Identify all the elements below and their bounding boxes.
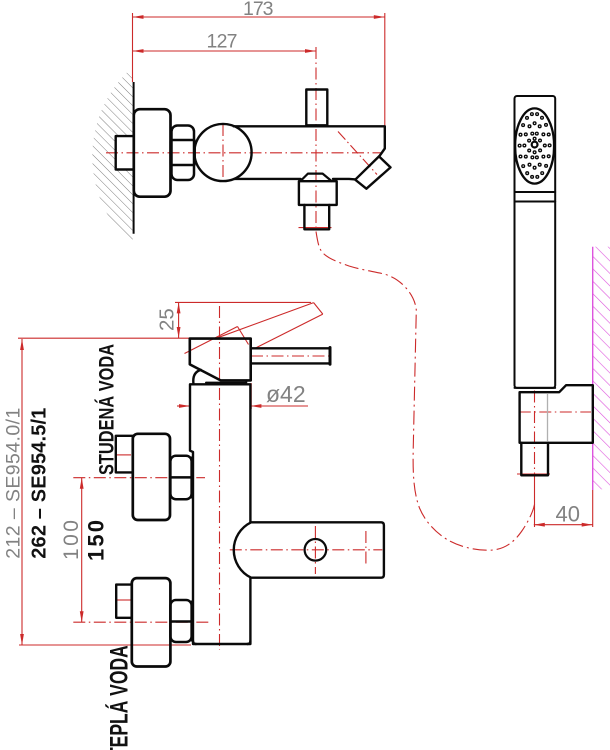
upper wall pipe small rect bbox=[116, 436, 133, 473]
lower wall pipe centerline short bbox=[117, 599, 131, 601]
wall extension red for 40 dim bbox=[592, 490, 594, 527]
phantom lever R1 rotated head top bbox=[185, 327, 238, 354]
body top view outline bbox=[234, 126, 385, 179]
svg-text:STUDENÁ VODA: STUDENÁ VODA bbox=[95, 344, 118, 475]
dimension ø42 arrows shafts bbox=[177, 405, 190, 407]
shower attach crosshair bbox=[365, 531, 367, 564]
dimension 25 line bbox=[178, 302, 180, 338]
ball joint circle bbox=[194, 124, 251, 181]
top pipe stub bbox=[306, 90, 327, 126]
lower inlet centerline bbox=[73, 621, 211, 623]
spout arc bbox=[193, 370, 201, 384]
hose curve bbox=[316, 232, 535, 551]
dark gap band lower nut/tube bbox=[191, 601, 194, 642]
upper flange bbox=[133, 434, 170, 520]
extension line left (wall) bbox=[132, 13, 134, 82]
svg-text:127: 127 bbox=[207, 31, 238, 53]
svg-text:40: 40 bbox=[556, 502, 580, 527]
wall pipe small rect top view bbox=[116, 136, 134, 169]
nozzle axis 45deg bbox=[338, 132, 377, 175]
dimension 40 line bbox=[534, 524, 593, 526]
wall hatch top-left (top view wall) bbox=[92, 70, 133, 246]
wall edge line right magenta bbox=[592, 247, 594, 490]
front tube vertical centerline bbox=[219, 306, 221, 650]
upper wall pipe centerline short bbox=[117, 454, 131, 456]
shower outlet pipe bbox=[304, 205, 329, 229]
red tick under outlet bbox=[299, 227, 332, 229]
tube bottom round corners bbox=[193, 641, 250, 644]
bracket/connector vertical centerline bbox=[534, 391, 536, 477]
main vertical tube bbox=[190, 384, 250, 644]
diverter nozzle 45deg bbox=[355, 156, 390, 188]
extension connector to 40 dim bbox=[534, 476, 536, 527]
svg-text:25: 25 bbox=[156, 308, 179, 331]
handle bottom edge bbox=[515, 387, 556, 389]
center spray ring bbox=[532, 142, 538, 148]
white masks over hatch (top view wall connection) bbox=[116, 136, 134, 169]
ball vertical centerline bbox=[222, 124, 224, 182]
hose connector bbox=[521, 443, 548, 476]
extension/centerline shower outlet axis vertical bbox=[315, 47, 317, 232]
rod centerline bbox=[251, 355, 333, 357]
wall edge line top view bbox=[133, 82, 135, 234]
wall hatch right (shower wall) bbox=[593, 247, 610, 490]
grey hidden line in bracket bbox=[547, 394, 549, 441]
dimension 212/262 line bbox=[21, 339, 23, 645]
head body bbox=[190, 339, 251, 381]
dimension 100/150 line bbox=[81, 478, 83, 623]
svg-text:173: 173 bbox=[243, 0, 274, 20]
spray holes bbox=[518, 113, 551, 178]
arm hole bbox=[305, 539, 327, 561]
phantom lever R5 lower edge bbox=[255, 314, 323, 348]
dimension 127 line bbox=[133, 50, 317, 52]
wall bracket bbox=[520, 385, 593, 443]
arm hole vertical crosshair bbox=[314, 526, 316, 574]
ext 25 top to lever bbox=[175, 301, 311, 303]
ext line ø42 right bbox=[250, 383, 252, 409]
svg-text:ø42: ø42 bbox=[266, 381, 306, 407]
rod end cap bbox=[329, 348, 332, 365]
upper hex nut front bbox=[170, 456, 191, 499]
svg-text:100: 100 bbox=[60, 520, 83, 560]
lower hex nut front bbox=[170, 600, 191, 642]
dimension 173 line bbox=[133, 16, 385, 18]
dark gap band upper nut/tube bbox=[191, 457, 194, 499]
shower outlet hump bbox=[301, 174, 332, 181]
upper inlet centerline bbox=[73, 477, 205, 479]
head/handle separation lines bbox=[515, 191, 556, 193]
main centerline top view bbox=[106, 152, 382, 154]
shower outlet block bbox=[299, 181, 337, 205]
phantom lever R4 end cap bbox=[314, 303, 323, 315]
red tick connector bottom bbox=[517, 473, 550, 475]
extension line right end body bbox=[384, 13, 386, 126]
lower wall pipe small rect bbox=[116, 585, 132, 618]
phantom lever R2 rotated head right bbox=[238, 327, 249, 345]
phantom lever R3 upper edge bbox=[216, 303, 313, 339]
svg-text:212 – SE954.0/1: 212 – SE954.0/1 bbox=[3, 408, 25, 559]
lever rod bbox=[251, 348, 330, 363]
bracket horizontal centerline bbox=[519, 411, 591, 413]
ext head top shared (25 bottom / 212 top) bbox=[18, 337, 190, 339]
hex nut top view bbox=[171, 126, 195, 181]
arm centerline bbox=[230, 549, 382, 551]
lower flange bbox=[132, 578, 171, 666]
neck lip line bbox=[206, 380, 246, 382]
flange top view bbox=[134, 109, 171, 197]
red arrowheads bbox=[20, 15, 593, 645]
ext bottom 212 bbox=[19, 644, 191, 646]
svg-text:150: 150 bbox=[84, 520, 109, 561]
shower arm front view bbox=[234, 522, 384, 577]
svg-text:262 – SE954.5/1: 262 – SE954.5/1 bbox=[29, 408, 51, 559]
spray face ellipse bbox=[515, 108, 554, 183]
shower body rect bbox=[515, 96, 556, 388]
svg-text:TEPLÁ VODA: TEPLÁ VODA bbox=[104, 645, 133, 750]
